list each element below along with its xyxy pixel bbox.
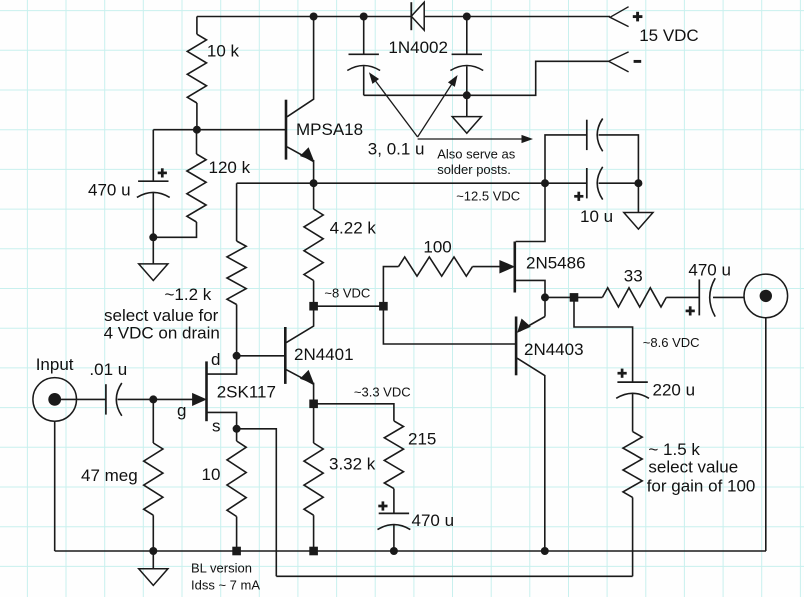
svg-text:220 u: 220 u [653, 381, 696, 400]
resistor R4 4.22k bottom lead [313, 281, 315, 307]
resistor R5 47meg bottom lead [152, 515, 154, 551]
arrow: annotation to C1 [372, 76, 418, 137]
node: rail junction right of 10u cap [634, 179, 642, 187]
wire: R10 to C8 [666, 296, 699, 298]
ground: 12.5V rail ground lead [637, 183, 639, 212]
transistor Q4 2N5486 gate arrow [500, 261, 514, 273]
svg-text:215: 215 [408, 429, 436, 448]
node: top rail junction at MPSA18 collector [310, 13, 318, 21]
ground: input filter ground lead [466, 95, 468, 116]
node: gate node junction [149, 395, 157, 403]
ground: left ground symbol [139, 264, 168, 281]
wire: output node to R10 [545, 296, 602, 298]
label: + (C8 polarity) [686, 310, 695, 313]
arrow: annotation to C2 [418, 79, 456, 137]
label: - (negative terminal) [634, 60, 642, 63]
transistor Q5 2N4403 collector [517, 358, 545, 551]
svg-text:Idss ~ 7 mA: Idss ~ 7 mA [191, 578, 260, 593]
svg-text:470 u: 470 u [88, 181, 131, 200]
svg-text:2N5486: 2N5486 [526, 254, 586, 273]
node: output branch junction [570, 293, 579, 302]
resistor R3 ~1.2k top lead [236, 183, 238, 241]
capacitor C2 0.1u top lead [466, 17, 468, 55]
wire: drain node to 2N4401 base [237, 355, 286, 357]
resistor R4 4.22k top lead [313, 183, 315, 209]
transistor Q5 2N4403 emitter [520, 317, 546, 332]
ground: bottom ground lead [152, 551, 154, 569]
svg-text:470 u: 470 u [688, 261, 731, 280]
svg-text:33: 33 [624, 266, 643, 285]
transistor Q4 2N5486 source lead [516, 280, 545, 297]
transistor Q5 2N4403 base bar [515, 317, 518, 376]
capacitor C2 0.1u bottom lead [466, 66, 468, 95]
wire: C1 bottom to ground bus [364, 94, 467, 96]
transistor Q4 2N5486 drain lead [516, 183, 545, 241]
capacitor C1 0.1u [349, 53, 379, 55]
resistor R8 215 [384, 421, 403, 489]
node: top rail junction at C1 [360, 13, 368, 21]
svg-text:Also serve as: Also serve as [437, 147, 516, 162]
svg-text:MPSA18: MPSA18 [296, 120, 363, 139]
node: output node junction [541, 293, 549, 301]
svg-text:4.22 k: 4.22 k [330, 219, 377, 238]
transistor Q1 MPSA18 collector [287, 17, 314, 117]
resistor R6 10 bottom lead [236, 517, 238, 552]
wire: Q1 emitter to 12.5V rail [313, 160, 315, 183]
capacitor C8 470u [698, 279, 700, 315]
resistor R3 ~1.2k [227, 241, 246, 305]
resistor R3 ~1.2k bottom lead [236, 305, 238, 356]
svg-text:for gain of 100: for gain of 100 [647, 477, 756, 496]
svg-text:100: 100 [423, 237, 451, 256]
svg-text:10: 10 [202, 465, 221, 484]
node: C4/R2 ground junction [149, 233, 157, 241]
resistor R2 120k top lead [196, 130, 198, 154]
transistor Q3 2N4401 base bar [284, 327, 287, 384]
node: Q5 collector ground junction [541, 547, 549, 555]
resistor R5 47meg [144, 443, 163, 515]
capacitor C1 0.1u top lead [363, 17, 365, 55]
node: ~8 VDC right junction [379, 302, 388, 311]
node: ~8 VDC left junction [309, 302, 318, 311]
resistor R6 10 [227, 441, 246, 517]
svg-text:470 u: 470 u [412, 511, 455, 530]
node: drain node junction [233, 352, 241, 360]
label: + (C9 polarity) [618, 372, 627, 375]
resistor R10 33 [602, 288, 666, 307]
wire: feedback run bottom [276, 575, 632, 577]
svg-text:select value: select value [648, 458, 738, 477]
wire: ~12.5 VDC rail [237, 182, 587, 184]
connector: Input jack center pin [48, 393, 61, 406]
wire: bottom ground rail [55, 550, 766, 552]
label: + (C4 polarity) [158, 172, 167, 175]
node: ground bus junction [463, 91, 471, 99]
resistor R1 10k bottom lead [196, 103, 198, 130]
wire: C5 to ground junction [599, 182, 639, 184]
wire: output jack ground drop [765, 318, 767, 551]
wire: negative terminal to ground node [467, 61, 609, 95]
resistor R7 100 right lead [473, 266, 501, 268]
ground: 12.5V rail ground symbol [624, 213, 653, 230]
wire: ~8 VDC node [314, 305, 384, 307]
resistor R7 100 left lead [383, 267, 398, 307]
diode D1 1N4002 [410, 2, 412, 30]
svg-text:Input: Input [36, 355, 74, 374]
wire: ~8 VDC node to 2N4403 base [383, 306, 516, 344]
wire: +15V top rail (left of diode D1) [197, 16, 411, 18]
svg-text:BL version: BL version [191, 561, 252, 576]
svg-text:s: s [212, 417, 221, 436]
wire: output branch to C9 [574, 297, 633, 382]
wire: input jack ground drop [54, 421, 56, 551]
svg-text:select value for: select value for [104, 306, 219, 325]
capacitor C1 0.1u bottom lead [363, 66, 365, 95]
svg-text:solder posts.: solder posts. [437, 162, 511, 177]
capacitor C2 0.1u [452, 53, 482, 55]
resistor R5 47meg top lead [152, 399, 154, 443]
transistor Q4 2N5486 channel bar [513, 242, 516, 293]
label: + (C7 polarity) [378, 505, 387, 508]
svg-text:g: g [177, 401, 186, 420]
capacitor C7 470u [379, 512, 409, 514]
svg-text:~1.2 k: ~1.2 k [165, 285, 212, 304]
svg-text:120 k: 120 k [209, 158, 251, 177]
node: R9 ground junction [309, 547, 318, 556]
capacitor C4 470u bottom lead [152, 192, 154, 237]
capacitor C3 0.1u right lead [599, 135, 639, 183]
svg-text:10 u: 10 u [580, 207, 613, 226]
capacitor C9 220u bottom lead [632, 393, 634, 431]
wire: source node to feedback run [237, 429, 277, 577]
resistor R7 100 [399, 257, 473, 276]
capacitor C4 470u top lead [152, 130, 154, 182]
ground: left ground lead [152, 237, 154, 264]
connector: output jack center pin [760, 290, 772, 302]
svg-text:2N4401: 2N4401 [294, 345, 354, 364]
ground: bottom ground symbol [139, 569, 168, 586]
transistor Q1 MPSA18 base bar [285, 100, 288, 160]
label: + (positive terminal) [633, 15, 643, 18]
capacitor C5 10u [586, 168, 588, 198]
svg-text:47 meg: 47 meg [81, 466, 138, 485]
resistor R2 120k [187, 154, 206, 222]
svg-text:.01 u: .01 u [89, 360, 127, 379]
resistor R4 4.22k [304, 209, 323, 281]
node: base node junction [193, 126, 201, 134]
svg-text:~12.5 VDC: ~12.5 VDC [456, 189, 520, 204]
svg-text:~8.6 VDC: ~8.6 VDC [643, 335, 700, 350]
connector: output jack outer ring [744, 274, 788, 318]
capacitor C4 470u [138, 180, 168, 182]
transistor Q3 2N4401 emitter [286, 370, 313, 385]
svg-text:~8 VDC: ~8 VDC [324, 285, 370, 300]
capacitor C7 470u bottom lead [393, 524, 395, 551]
capacitor C3 0.1u left lead [545, 135, 587, 183]
node: C7 ground junction [390, 547, 398, 555]
svg-text:2SK117: 2SK117 [217, 383, 276, 402]
node: Q3 emitter junction [309, 400, 318, 409]
capacitor C3 0.1u [586, 120, 588, 150]
transistor Q3 2N4401 collector [286, 306, 313, 342]
svg-text:~3.3 VDC: ~3.3 VDC [354, 385, 411, 400]
svg-text:1N4002: 1N4002 [388, 38, 448, 57]
terminal: +15 VDC positive input [610, 7, 629, 27]
node: top rail junction at C2 [463, 13, 471, 21]
svg-text:~ 1.5 k: ~ 1.5 k [648, 440, 700, 459]
wire: C8 to output jack [713, 296, 744, 298]
transistor Q2 2SK117 gate arrow [193, 394, 206, 406]
svg-text:3, 0.1 u: 3, 0.1 u [368, 140, 425, 159]
capacitor C9 220u [617, 381, 647, 383]
node: Q1 emitter junction [310, 179, 318, 187]
node: source node junction [233, 425, 241, 433]
ground: input filter ground symbol [452, 117, 481, 134]
wire: gate node to 2SK117 gate [153, 398, 193, 400]
transistor Q2 2SK117 channel bar [205, 361, 208, 421]
label: + (C5 polarity) [574, 195, 583, 198]
svg-text:15 VDC: 15 VDC [639, 26, 699, 45]
transistor Q2 2SK117 drain lead [207, 356, 236, 374]
svg-text:3.32 k: 3.32 k [329, 455, 376, 474]
svg-text:d: d [211, 350, 220, 369]
resistor R2 120k bottom hook [153, 222, 196, 237]
connector: Input jack outer ring [33, 378, 77, 422]
node: rail junction at 10u cap [541, 179, 549, 187]
resistor R1 10k top lead [196, 17, 198, 35]
resistor R1 10k [187, 34, 206, 103]
transistor Q2 2SK117 source lead [207, 412, 236, 428]
resistor R11 bottom lead [632, 497, 634, 576]
wire: +15V top rail (right of diode D1) [424, 16, 610, 18]
wire: C6 to gate node [118, 398, 154, 400]
terminal: 15 VDC negative input [609, 52, 629, 72]
transistor Q1 MPSA18 emitter [287, 147, 314, 162]
wire: ~3.3 VDC node [314, 404, 394, 421]
wire: MPSA18 base node [153, 129, 286, 131]
svg-text:4 VDC on drain: 4 VDC on drain [104, 324, 220, 343]
node: rail junction at R5 [149, 547, 157, 555]
resistor R9 3.32k bottom lead [313, 515, 315, 551]
resistor R6 10 top lead [236, 429, 238, 441]
resistor R11 ~1.5k [623, 432, 642, 498]
arrow: annotation to C3 [418, 138, 524, 140]
wire: input pin to C6 [55, 398, 106, 400]
resistor R9 3.32k [304, 443, 323, 515]
svg-text:2N4403: 2N4403 [524, 340, 584, 359]
svg-text:10 k: 10 k [207, 42, 240, 61]
resistor R9 3.32k top lead [313, 404, 315, 443]
resistor R8 215 bottom lead [393, 489, 395, 514]
capacitor C6 .01u [105, 384, 107, 414]
wire: Q3 emitter down [313, 383, 315, 404]
node: rail junction at R6 [232, 547, 241, 556]
